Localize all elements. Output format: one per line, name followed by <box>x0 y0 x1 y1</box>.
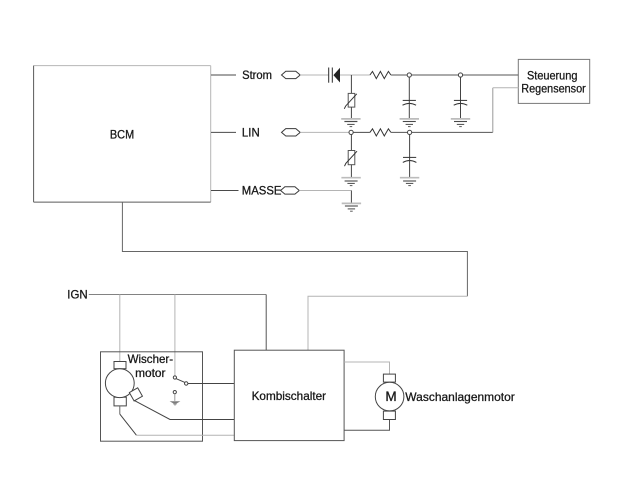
svg-text:LIN: LIN <box>242 125 260 139</box>
svg-text:Kombischalter: Kombischalter <box>252 389 327 403</box>
svg-text:motor: motor <box>135 366 165 380</box>
svg-text:Wischer-: Wischer- <box>128 352 174 366</box>
svg-text:Steuerung: Steuerung <box>527 68 577 82</box>
svg-text:M: M <box>385 389 396 404</box>
svg-text:IGN: IGN <box>67 287 87 301</box>
svg-text:MASSE: MASSE <box>242 183 282 197</box>
svg-text:Regensensor: Regensensor <box>521 81 585 95</box>
svg-text:Strom: Strom <box>242 68 272 82</box>
svg-text:BCM: BCM <box>110 127 134 141</box>
svg-text:Waschanlagenmotor: Waschanlagenmotor <box>405 390 515 404</box>
